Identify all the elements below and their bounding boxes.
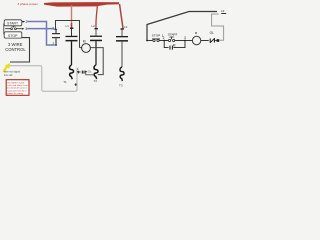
- pushbutton NO START (ladder): [164, 40, 168, 42]
- annotation: red warning box: [6, 80, 29, 96]
- wire: L2 drop: [96, 4, 98, 29]
- wire: L3 drop: [120, 4, 124, 29]
- wire: small hook joining T2 bottom: [86, 72, 95, 75]
- annotation: gray pointer line: [10, 66, 78, 92]
- svg-text:separate from the it: separate from the it: [8, 89, 27, 92]
- contact M aux (ladder parallel branch): [164, 41, 168, 48]
- svg-text:T3: T3: [119, 84, 123, 88]
- svg-text:this MUST match: this MUST match: [8, 81, 26, 84]
- svg-text:L3: L3: [124, 25, 128, 29]
- svg-text:L2: L2: [221, 9, 225, 13]
- contact M-aux (power panel, nodes 3/2): [55, 30, 57, 34]
- wire L-bus: red power bus: [44, 2, 119, 7]
- svg-text:T1: T1: [63, 80, 67, 84]
- node 3 (aux top): [55, 29, 57, 31]
- wire node3: blue wire STOP->aux top: [27, 28, 55, 31]
- wire node2: blue wire START->aux bottom: [27, 22, 55, 46]
- node 2 (aux bottom): [55, 44, 57, 46]
- svg-text:low volt: low volt: [4, 74, 13, 77]
- wire: coil return loop to L2 overload: [90, 48, 103, 75]
- contact L2 (contactor pole): [95, 29, 97, 35]
- button STOP (3-wire control): [4, 32, 22, 38]
- svg-text:START: START: [7, 22, 19, 26]
- svg-text:L1: L1: [66, 24, 70, 28]
- contact L3 (contactor pole): [121, 30, 123, 36]
- svg-text:OL: OL: [210, 31, 214, 35]
- svg-text:M: M: [173, 43, 176, 47]
- svg-text:power for safety: power for safety: [8, 92, 24, 95]
- node 3 (ladder): [184, 40, 186, 42]
- node: right end junction: [217, 39, 220, 42]
- wire: L1 drop (light red): [71, 5, 73, 28]
- svg-text:L2: L2: [92, 24, 96, 28]
- svg-text:START: START: [168, 33, 178, 37]
- node L2 terminal: [95, 28, 98, 29]
- svg-text:3 phase power: 3 phase power: [18, 2, 38, 6]
- wire: top rail (diagonal + horizontal): [147, 12, 217, 25]
- svg-text:coils and when it can: coils and when it can: [8, 84, 29, 87]
- svg-text:CONTROL: CONTROL: [5, 47, 26, 52]
- wire + arrow to node 2: [21, 21, 24, 23]
- wire: enclosure path around contactor (aux top up-over-down to coil): [56, 21, 80, 48]
- overload heater T1: [69, 65, 73, 79]
- annotation: yellow arrow: [3, 67, 6, 72]
- overload heater T3: [120, 67, 124, 81]
- node L1 terminal: [70, 28, 73, 29]
- coil M (ladder): [185, 40, 192, 42]
- wire: left bracket: [3, 24, 5, 35]
- svg-text:3: 3: [25, 27, 27, 31]
- node 2 (ladder): [163, 40, 165, 42]
- svg-text:wire not signal: wire not signal: [4, 70, 20, 73]
- pushbutton NC STOP (ladder): [147, 40, 152, 42]
- svg-text:M: M: [83, 40, 86, 44]
- svg-text:T2: T2: [94, 79, 98, 83]
- overload heater T2: [94, 65, 98, 79]
- svg-text:2: 2: [163, 36, 165, 40]
- button START (3-wire control): [4, 20, 22, 26]
- svg-text:3: 3: [184, 36, 186, 40]
- svg-text:STOP: STOP: [152, 34, 160, 38]
- svg-text:OL: OL: [88, 69, 92, 73]
- annotation: arrows and bars between overloads: [77, 71, 80, 73]
- svg-text:be wired off coil is it: be wired off coil is it: [8, 87, 27, 90]
- annotation: diamond marker: [74, 83, 77, 86]
- svg-text:3 WIRE: 3 WIRE: [8, 42, 23, 47]
- pushbutton NO symbol (between boxes): [5, 28, 10, 30]
- wire: right rail return (gray): [212, 14, 224, 40]
- contact L1 (contactor pole): [71, 29, 73, 36]
- node L3 terminal: [121, 28, 124, 29]
- svg-text:STOP: STOP: [8, 34, 18, 38]
- wire: left rail: [146, 24, 148, 41]
- wire: from STOP box right, down and left (open end): [10, 38, 30, 62]
